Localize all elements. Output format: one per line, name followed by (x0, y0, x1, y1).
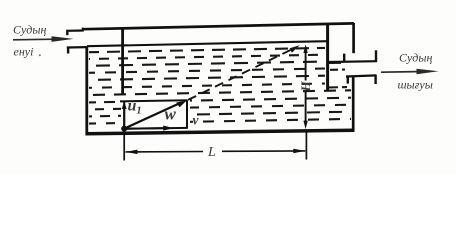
svg-text:шығуы: шығуы (398, 78, 433, 92)
svg-text:Судың: Судың (13, 23, 46, 37)
svg-text:енуі: енуі (14, 45, 34, 59)
svg-text:v: v (193, 113, 200, 128)
svg-text:H: H (298, 81, 313, 93)
svg-text:Судың: Судың (399, 51, 432, 65)
svg-text:w: w (165, 105, 177, 124)
svg-text:L: L (207, 145, 216, 160)
